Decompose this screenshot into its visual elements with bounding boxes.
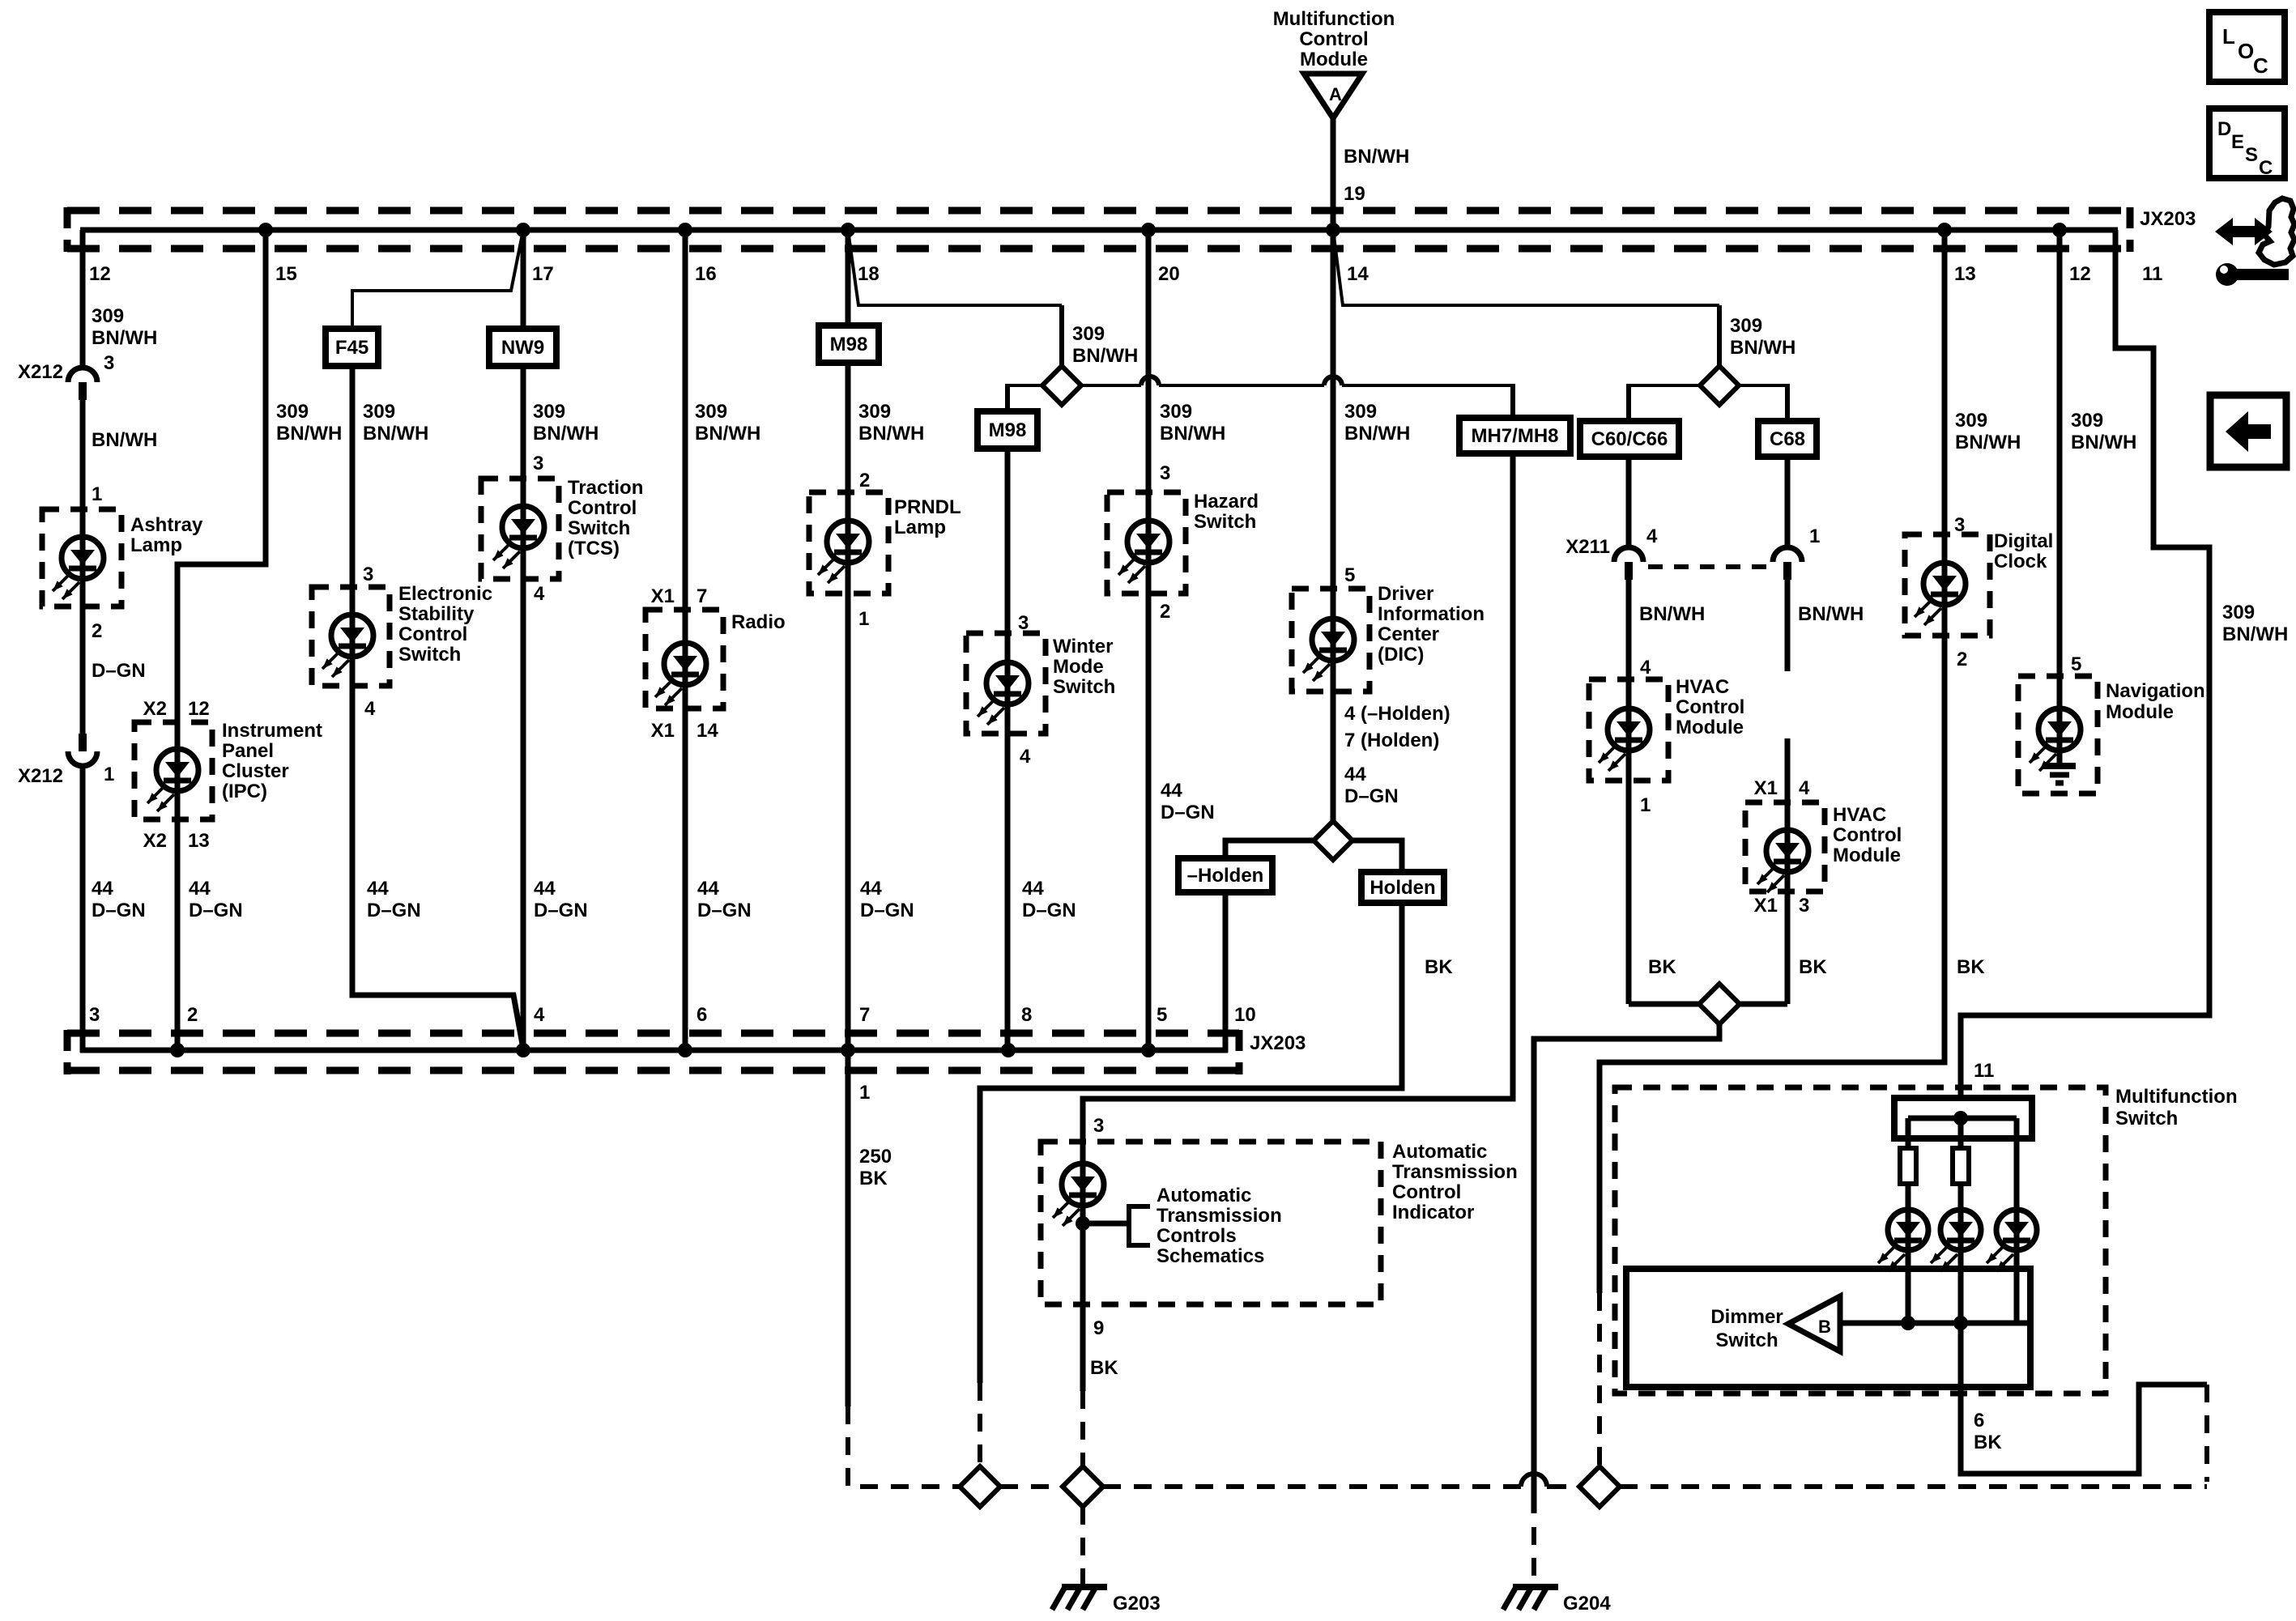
wire to resistor 2	[1958, 1118, 1964, 1148]
wire Hazard pin2 down to bottom bus pin5 (44 D-GN)	[1146, 594, 1152, 1053]
svg-text:(DIC): (DIC)	[1378, 644, 1424, 666]
lamp: Driver Information Center	[1331, 589, 1336, 691]
svg-text:5: 5	[1344, 564, 1355, 586]
in-line connector NW9	[489, 329, 556, 366]
svg-text:13: 13	[188, 830, 210, 852]
wire splice to C60/C66	[1629, 384, 1700, 387]
svg-text:Controls: Controls	[1157, 1225, 1237, 1247]
wire pin15 down and left to IPC column	[177, 230, 266, 722]
svg-text:Cluster: Cluster	[222, 760, 289, 782]
svg-text:2: 2	[1957, 649, 1967, 670]
JX203 left bracket	[64, 207, 71, 252]
svg-text:BN/WH: BN/WH	[92, 327, 157, 349]
svg-text:BN/WH: BN/WH	[1955, 432, 2021, 453]
svg-text:Clock: Clock	[1994, 551, 2047, 572]
splice diamond (309 BN/WH to HVAC modules)	[1700, 366, 1739, 405]
wire splice to second M98	[1007, 384, 1042, 387]
switch contact bar box	[1894, 1098, 2032, 1138]
svg-text:BK: BK	[1974, 1432, 2002, 1453]
wire HVAC-1 pin1 down to BK junction	[1626, 781, 1632, 1004]
svg-text:1: 1	[104, 764, 114, 785]
svg-text:BN/WH: BN/WH	[1344, 423, 1410, 445]
svg-text:309: 309	[533, 401, 565, 423]
svg-text:Driver: Driver	[1378, 583, 1433, 605]
junction node on top bus x=2543	[2052, 223, 2067, 237]
svg-text:Control: Control	[568, 497, 637, 519]
svg-text:Control: Control	[1299, 28, 1368, 50]
connector X212 pin 1	[79, 734, 87, 751]
wire LED returns to dimmer	[1840, 1321, 2027, 1326]
dashed wire Holden BK to splice diamond	[978, 1383, 982, 1468]
svg-text:BN/WH: BN/WH	[2222, 623, 2288, 645]
wire Clock pin2 BK down-left to G204 splice	[1600, 636, 1945, 1293]
svg-text:2: 2	[92, 620, 102, 642]
dashed ground bus between splices	[1000, 1484, 1063, 1489]
wire splice to Holden box	[1352, 840, 1402, 872]
wire pin12 down to connector X212 pin3	[80, 230, 86, 368]
wire X211-1 down (BN/WH) with break	[1785, 580, 1791, 671]
svg-text:C68: C68	[1770, 428, 1805, 450]
svg-text:Automatic: Automatic	[1392, 1141, 1487, 1163]
wire splice to C68	[1739, 384, 1787, 387]
svg-text:Switch: Switch	[2115, 1108, 2178, 1130]
svg-text:Navigation: Navigation	[2106, 680, 2205, 702]
svg-text:(IPC): (IPC)	[222, 781, 267, 802]
Traction Control Switch dashed box	[481, 479, 559, 579]
svg-text:Hazard: Hazard	[1194, 491, 1259, 513]
svg-text:BK: BK	[1425, 956, 1453, 978]
svg-text:Digital: Digital	[1994, 530, 2053, 552]
wire: top bus 309 BN/WH	[80, 228, 2118, 233]
wire Ashtray pin2 to X212 pin1 (D-GN)	[80, 606, 86, 734]
svg-text:MH7/MH8: MH7/MH8	[1471, 425, 1558, 447]
lamp: HVAC Control Module	[1626, 679, 1632, 781]
connector X211 pin 4	[1614, 547, 1643, 562]
svg-text:44: 44	[1344, 764, 1366, 785]
svg-text:Ashtray: Ashtray	[130, 514, 203, 536]
bracket: Automatic Transmission Controls Schematics	[1129, 1206, 1150, 1245]
svg-text:Holden: Holden	[1370, 877, 1435, 899]
junction node on bottom bus x=219	[170, 1043, 185, 1057]
dashed wire ATCI BK to G203 splice	[1080, 1391, 1085, 1468]
wire: bottom bus 44 D-GN	[80, 1048, 1228, 1053]
svg-text:Winter: Winter	[1053, 636, 1113, 657]
svg-text:Schematics: Schematics	[1157, 1245, 1264, 1267]
svg-text:X1: X1	[1754, 895, 1778, 917]
Digital Clock dashed box	[1905, 534, 1990, 636]
svg-text:12: 12	[2069, 263, 2091, 285]
wire ATCI pin9 BK down	[1080, 1304, 1086, 1391]
svg-text:1: 1	[1809, 525, 1820, 547]
in-line connector MH7/MH8	[1459, 418, 1570, 453]
svg-text:BN/WH: BN/WH	[1344, 146, 1409, 168]
svg-text:Switch: Switch	[1053, 676, 1115, 698]
svg-text:15: 15	[275, 263, 297, 285]
svg-text:X1: X1	[651, 720, 675, 742]
junction node on bottom bus x=646	[516, 1043, 530, 1057]
svg-text:Switch: Switch	[398, 644, 461, 666]
svg-text:Instrument: Instrument	[222, 720, 322, 742]
svg-text:9: 9	[1093, 1317, 1104, 1339]
lamp: switch LED 1	[1906, 1210, 1911, 1323]
svg-text:D–GN: D–GN	[697, 900, 752, 921]
svg-text:1: 1	[92, 483, 102, 505]
svg-text:BK: BK	[1957, 956, 1985, 978]
svg-text:BN/WH: BN/WH	[2071, 432, 2136, 453]
in-line connector Holden	[1361, 872, 1444, 903]
svg-text:44: 44	[860, 878, 882, 900]
svg-text:3: 3	[1799, 895, 1809, 917]
dashed wire to G204	[1531, 1527, 1536, 1584]
junction node on bottom bus x=846	[678, 1043, 692, 1057]
Hazard Switch dashed box	[1107, 492, 1186, 594]
Automatic Transmission Control Indicator dashed box	[1041, 1142, 1381, 1304]
svg-text:JX203: JX203	[1250, 1032, 1306, 1054]
splice diamond (G203 left)	[960, 1466, 1000, 1507]
JX203 bottom right bracket	[1236, 1030, 1243, 1074]
svg-text:309: 309	[276, 401, 309, 423]
svg-text:Control: Control	[398, 623, 467, 645]
svg-text:44: 44	[534, 878, 556, 900]
wire F45 to ESC switch pin3 (309 BN/WH)	[350, 366, 356, 587]
Winter Mode Switch dashed box	[966, 633, 1046, 734]
svg-text:2: 2	[859, 470, 870, 491]
resistor R1	[1900, 1148, 1916, 1184]
svg-text:14: 14	[696, 720, 718, 742]
dashed wire clock BK to splice diamond	[1597, 1293, 1602, 1468]
svg-text:2: 2	[1160, 601, 1170, 623]
svg-text:2: 2	[187, 1004, 198, 1026]
svg-text:14: 14	[1347, 263, 1369, 285]
svg-text:309: 309	[1955, 410, 1987, 432]
svg-text:44: 44	[1022, 878, 1044, 900]
svg-text:11: 11	[1974, 1060, 1994, 1082]
svg-text:BK: BK	[1090, 1357, 1118, 1379]
svg-text:19: 19	[1344, 183, 1365, 205]
junction node on top bus x=328	[258, 223, 273, 237]
svg-text:G204: G204	[1563, 1593, 1611, 1615]
wire PRNDL pin1 down to bottom bus pin7 (44 D-GN)	[846, 594, 851, 1053]
svg-text:D–GN: D–GN	[92, 900, 146, 921]
svg-text:A: A	[1329, 84, 1342, 104]
resistor R2	[1953, 1148, 1969, 1184]
svg-text:309: 309	[695, 401, 727, 423]
svg-text:309: 309	[858, 401, 891, 423]
wire IPC down to bottom bus pin2 (44 D-GN)	[175, 819, 181, 1053]
svg-text:Control: Control	[1676, 696, 1744, 718]
wire resistor 1 to LED 1	[1906, 1184, 1911, 1210]
svg-text:309: 309	[363, 401, 395, 423]
svg-text:Traction: Traction	[568, 477, 643, 499]
svg-text:D–GN: D–GN	[860, 900, 914, 921]
svg-text:BN/WH: BN/WH	[1072, 345, 1138, 367]
dashed wire 250 BK elbow to ground bus	[848, 1406, 960, 1487]
wire pin17 down to NW9	[521, 230, 526, 329]
in-line connector F45	[326, 329, 378, 366]
svg-text:18: 18	[858, 263, 880, 285]
svg-text:Indicator: Indicator	[1392, 1202, 1474, 1223]
wire M98 to Winter Mode Switch pin3 (309 BN/WH)	[1005, 449, 1011, 633]
junction node on top bus x=1418	[1141, 223, 1156, 237]
svg-text:JX203: JX203	[2140, 208, 2196, 230]
junction node on bottom bus x=1245	[1001, 1043, 1016, 1057]
svg-text:BN/WH: BN/WH	[533, 423, 598, 445]
wire BK bus between HVAC modules	[1629, 1002, 1699, 1007]
wire pin16 down to Radio X1-7 (309 BN/WH)	[683, 230, 688, 610]
wire pin11 (309 BN/WH) stepped path down to Multifunction Switch	[1961, 230, 2209, 1101]
wire to AT controls bracket	[1083, 1221, 1129, 1227]
svg-text:44: 44	[92, 878, 113, 900]
svg-text:B: B	[1818, 1317, 1831, 1337]
svg-text:4: 4	[1799, 777, 1810, 799]
junction node on bottom bus x=1418	[1141, 1043, 1156, 1057]
svg-text:BN/WH: BN/WH	[858, 423, 924, 445]
in-line connector -Holden	[1178, 858, 1272, 892]
svg-text:8: 8	[1021, 1004, 1032, 1026]
svg-text:20: 20	[1158, 263, 1180, 285]
splice diamond (309 BN/WH to M98 / MH7-MH8)	[1042, 366, 1081, 405]
wire pin14 down to DIC pin5 (309 BN/WH)	[1331, 230, 1336, 589]
svg-text:NW9: NW9	[501, 337, 544, 359]
wire hop over DIC wire	[1324, 377, 1342, 385]
lamp: Electronic Stability Control Switch	[350, 587, 356, 686]
svg-text:D–GN: D–GN	[367, 900, 421, 921]
wire pin20 down to Hazard Switch pin3 (309 BN/WH)	[1146, 230, 1152, 492]
svg-text:44: 44	[697, 878, 719, 900]
svg-text:3: 3	[363, 564, 373, 585]
wire Radio X1-14 down to bottom bus pin6 (44 D-GN)	[683, 708, 688, 1053]
icon: DESC box	[2209, 108, 2285, 178]
junction node on top bus x=846	[678, 223, 692, 237]
wire X212 to Ashtray Lamp pin1 (BN/WH)	[80, 400, 86, 509]
svg-text:250: 250	[859, 1146, 892, 1168]
svg-text:BK: BK	[1648, 956, 1676, 978]
in-line connector M98 (PRNDL feed)	[819, 325, 879, 363]
junction node on top bus x=1047	[841, 223, 855, 237]
svg-text:44: 44	[189, 878, 211, 900]
wire C68 to connector X211 pin1	[1785, 457, 1791, 547]
svg-text:Module: Module	[2106, 701, 2174, 723]
in-line connector C68	[1758, 421, 1817, 457]
svg-text:X211: X211	[1565, 536, 1610, 558]
svg-text:PRNDL: PRNDL	[894, 496, 961, 518]
wire pin17 branch to F45	[352, 230, 523, 329]
in-line connector M98 (Winter Mode feed)	[978, 411, 1037, 449]
svg-text:Multifunction: Multifunction	[1273, 8, 1395, 30]
svg-text:BN/WH: BN/WH	[276, 423, 342, 445]
splice diamond (DIC lamp return)	[1314, 821, 1352, 860]
svg-text:5: 5	[1157, 1004, 1167, 1026]
wire MH7/MH8 down-left to AT Control Indicator pin3	[1083, 453, 1513, 1142]
HVAC Control Module 2 dashed box	[1745, 802, 1825, 891]
lamp: Ashtray Lamp	[80, 509, 86, 606]
svg-text:Transmission: Transmission	[1392, 1161, 1518, 1183]
lamp: Navigation Module	[2057, 676, 2063, 764]
svg-text:M98: M98	[830, 334, 868, 355]
svg-text:4: 4	[534, 1004, 545, 1026]
lamp: Automatic Transmission Control Indicator	[1080, 1142, 1086, 1304]
svg-text:12: 12	[188, 698, 210, 720]
lamp: switch LED 3	[2014, 1210, 2020, 1323]
svg-text:4: 4	[364, 698, 376, 720]
svg-text:7: 7	[859, 1004, 870, 1026]
svg-text:HVAC: HVAC	[1676, 676, 1729, 698]
wire Holden down-left-down to ground splice (BK)	[980, 903, 1402, 1383]
wire A-to-bus pin 19 (309 BN/WH)	[1331, 118, 1336, 230]
svg-text:Panel: Panel	[222, 740, 274, 762]
svg-text:Dimmer: Dimmer	[1710, 1306, 1783, 1328]
Electronic Stability Control Switch dashed box	[312, 587, 390, 686]
svg-text:X2: X2	[143, 698, 167, 720]
HVAC Control Module dashed box	[1589, 679, 1668, 781]
lamp: Traction Control Switch	[521, 479, 526, 579]
svg-text:BN/WH: BN/WH	[92, 429, 157, 451]
ground bus hop over G204 wire	[1521, 1474, 1547, 1487]
svg-text:Mode: Mode	[1053, 656, 1104, 678]
in-line connector C60/C66	[1580, 421, 1679, 457]
svg-text:BN/WH: BN/WH	[1160, 423, 1225, 445]
Navigation Module dashed box	[2018, 676, 2098, 793]
svg-text:BN/WH: BN/WH	[1798, 603, 1864, 625]
svg-text:309: 309	[2071, 410, 2103, 432]
JX203 bottom left bracket	[64, 1030, 71, 1074]
svg-text:309: 309	[1730, 315, 1762, 337]
lamp: switch LED 2	[1958, 1210, 1964, 1323]
svg-text:BN/WH: BN/WH	[1730, 337, 1795, 359]
junction node on top bus x=2401	[1937, 223, 1952, 237]
svg-text:1: 1	[858, 608, 869, 630]
svg-text:5: 5	[2071, 653, 2081, 675]
connector JX203 bottom: top dashed line	[67, 1030, 1239, 1037]
wire HVAC-2 pin3 down to BK junction	[1785, 891, 1791, 1004]
dashed wire G203 splice to ground	[1080, 1507, 1085, 1584]
splice diamond (G204 ground bus)	[1579, 1466, 1620, 1507]
svg-text:C: C	[2259, 157, 2273, 179]
connector X211 pin 1	[1773, 547, 1802, 562]
Instrument Panel Cluster dashed box	[134, 722, 212, 819]
wire to resistor 1	[1906, 1118, 1911, 1148]
Driver Information Center dashed box	[1292, 589, 1370, 691]
lamp: Radio	[683, 610, 688, 708]
svg-text:4: 4	[1640, 657, 1651, 679]
svg-text:Module: Module	[1833, 845, 1901, 866]
svg-text:Switch: Switch	[1715, 1330, 1778, 1351]
connector JX203 bottom dashed line	[67, 245, 2130, 253]
lamp: Winter Mode Switch	[1005, 633, 1011, 734]
Multifunction Switch dashed box	[1615, 1087, 2106, 1393]
svg-text:Automatic: Automatic	[1157, 1185, 1251, 1206]
wire X212-1 down to bottom bus pin3 (44 D-GN)	[80, 766, 86, 1053]
wire splice to -Holden box	[1225, 840, 1314, 858]
wire TCS pin4 down to bottom bus (44 D-GN)	[521, 579, 526, 1053]
svg-text:D–GN: D–GN	[1161, 802, 1215, 823]
svg-text:Switch: Switch	[568, 517, 630, 539]
wire Winter pin4 down to bottom bus pin8 (44 D-GN)	[1005, 734, 1011, 1053]
wire NW9 to TCS pin3 (309 BN/WH)	[521, 366, 526, 479]
svg-text:6: 6	[1974, 1410, 1984, 1432]
svg-text:3: 3	[533, 453, 543, 474]
junction node on top bus x=646	[516, 223, 530, 237]
svg-text:BN/WH: BN/WH	[1639, 603, 1705, 625]
svg-text:309: 309	[1160, 401, 1192, 423]
svg-text:1: 1	[859, 1082, 870, 1104]
wire -Holden down to bottom bus pin10	[1223, 892, 1229, 1053]
ground G204	[1513, 1584, 1558, 1590]
svg-text:X1: X1	[1754, 777, 1778, 799]
splice diamond (BK to G204)	[1699, 984, 1740, 1024]
wire pin13 down to Digital Clock pin3 (309 BN/WH)	[1942, 230, 1948, 534]
ground inside Navigation Module	[2043, 763, 2076, 769]
wire BK splice down-left to G204 drop	[1534, 1024, 1719, 1513]
svg-text:309: 309	[2222, 602, 2255, 623]
svg-text:X1: X1	[651, 585, 675, 607]
wire pin18 down to M98	[846, 230, 851, 325]
wire pin12 down to Navigation Module pin5 (309 BN/WH)	[2057, 230, 2063, 676]
svg-text:D–GN: D–GN	[534, 900, 588, 921]
svg-text:Switch: Switch	[1194, 511, 1256, 533]
wire M98 to PRNDL Lamp pin2 (309 BN/WH)	[846, 363, 851, 492]
svg-text:16: 16	[695, 263, 717, 285]
svg-text:7 (Holden): 7 (Holden)	[1344, 730, 1439, 751]
svg-text:(TCS): (TCS)	[568, 538, 620, 559]
connector JX203 top dashed line	[67, 207, 2130, 215]
svg-text:3: 3	[1160, 462, 1170, 484]
Dimmer Switch solid box	[1626, 1269, 2030, 1387]
wire hop over hazard wire	[1141, 377, 1159, 385]
svg-text:Radio: Radio	[731, 611, 786, 633]
wire pin1 250 BK down from bottom bus	[846, 1053, 851, 1406]
svg-text:Multifunction: Multifunction	[2115, 1086, 2238, 1108]
svg-text:X212: X212	[18, 361, 63, 383]
icon: left arrow box	[2210, 395, 2286, 467]
svg-text:G203: G203	[1113, 1593, 1161, 1615]
svg-text:BK: BK	[859, 1168, 888, 1189]
svg-text:44: 44	[1161, 780, 1182, 802]
svg-text:3: 3	[89, 1004, 100, 1026]
wire to LED 3	[2014, 1118, 2020, 1210]
svg-text:13: 13	[1954, 263, 1976, 285]
PRNDL Lamp dashed box	[809, 492, 888, 594]
svg-text:Stability: Stability	[398, 603, 475, 625]
svg-text:6: 6	[696, 1004, 707, 1026]
lamp: PRNDL Lamp	[846, 492, 851, 594]
svg-text:10: 10	[1234, 1004, 1256, 1026]
svg-text:C60/C66: C60/C66	[1591, 428, 1668, 450]
connector X212 pin 3	[68, 368, 97, 382]
Radio dashed box	[645, 610, 723, 708]
wire C60/C66 to connector X211 pin4	[1626, 457, 1632, 547]
svg-text:4 (–Holden): 4 (–Holden)	[1344, 703, 1450, 725]
wire DIC pin4/7 down to splice (44 D-GN)	[1331, 691, 1336, 821]
svg-text:11: 11	[2142, 263, 2162, 285]
svg-text:4: 4	[534, 583, 545, 605]
dashed wire 6 BK to ground bus	[2204, 1385, 2209, 1482]
svg-text:4: 4	[1646, 525, 1658, 547]
dashed ground bus to the right	[1103, 1484, 1521, 1489]
svg-text:Module: Module	[1300, 49, 1368, 70]
svg-text:–Holden: –Holden	[1187, 865, 1264, 887]
Ashtray Lamp dashed box	[42, 509, 121, 606]
wire ESC pin4 down, right, to bottom bus pin4 (44 D-GN)	[352, 686, 523, 1049]
wire internal feed bar	[1908, 1116, 2017, 1121]
lamp: HVAC Control Module 2	[1785, 802, 1791, 891]
wire 6 BK from switch down and right	[1961, 1323, 2207, 1474]
svg-text:L: L	[2222, 24, 2235, 49]
dimmer output triangle B	[1788, 1296, 1840, 1351]
splice diamond (G203)	[1063, 1466, 1103, 1507]
svg-text:Lamp: Lamp	[130, 534, 182, 556]
svg-text:BK: BK	[1799, 956, 1827, 978]
